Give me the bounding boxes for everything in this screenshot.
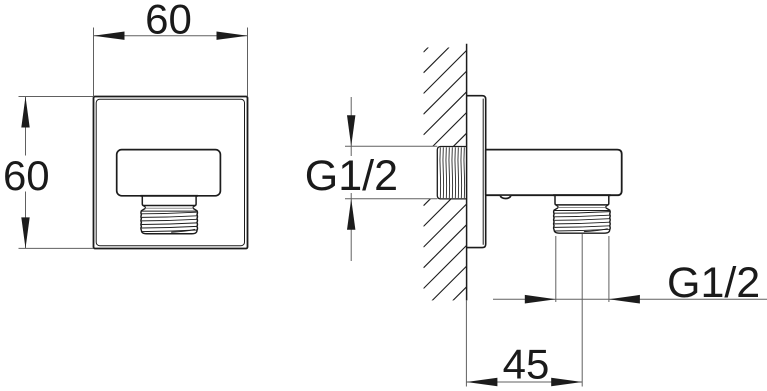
top 60 arrow right (217, 32, 248, 40)
side plate (467, 96, 486, 248)
bottom 45 dimension line (466, 381, 582, 383)
svg-text:G1/2: G1/2 (667, 259, 760, 307)
left 60 dimension line lower segment (25, 192, 27, 249)
outlet G1/2 extension line left (555, 236, 557, 302)
side plate chamfer line (482, 99, 484, 245)
front plate outer square (94, 97, 248, 249)
front outlet collar and thread (140, 196, 198, 234)
inlet thread G1/2 into wall (437, 147, 466, 199)
outlet G1/2 extension line right (608, 236, 610, 302)
bottom 45 extension line left (465, 300, 467, 386)
top 60 extension line right (247, 28, 249, 97)
top 60 dimension line (94, 35, 248, 37)
side plate right edge over arm (485, 150, 487, 196)
outlet G1/2 leader line (493, 298, 767, 300)
svg-text:60: 60 (3, 152, 50, 199)
svg-text:60: 60 (145, 0, 192, 43)
horizontal arm (486, 150, 622, 196)
top 60 arrow left (94, 32, 125, 40)
inlet G1/2 extension line bottom (345, 198, 437, 200)
front plate chamfer inner line (96, 99, 244, 246)
left 60 arrow down (21, 217, 29, 248)
left 60 arrow up (21, 97, 29, 128)
bottom 45 extension line right outlet centre line (581, 234, 583, 387)
left 60 extension line top (19, 96, 94, 98)
inlet G1/2 arrow up (347, 199, 355, 230)
wall surface line (466, 44, 468, 301)
inlet G1/2 arrow down (347, 115, 355, 146)
inlet G1/2 dimension line lower segment (350, 193, 352, 261)
grub screw dimple under arm (500, 196, 510, 199)
left 60 extension line bottom (19, 247, 94, 249)
svg-text:45: 45 (503, 340, 550, 387)
outlet G1/2 arrow pointing right (525, 295, 556, 304)
inlet G1/2 extension line top (345, 145, 437, 147)
top 60 extension line left (93, 28, 95, 97)
outlet G1/2 arrow pointing left (609, 295, 640, 304)
inlet G1/2 dimension line upper segment (350, 97, 352, 156)
left 60 dimension line upper segment (25, 97, 27, 156)
svg-text:G1/2: G1/2 (305, 152, 398, 200)
wall hatching (424, 9, 467, 330)
front body housing rounded rect (117, 150, 221, 196)
side outlet collar and thread (553, 195, 611, 233)
bottom 45 arrow right (551, 378, 582, 386)
bottom 45 arrow left (466, 378, 497, 386)
